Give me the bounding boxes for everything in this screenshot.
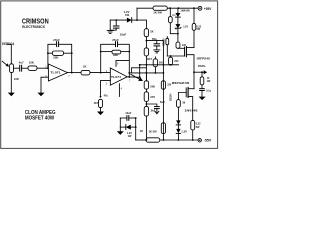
svg-text:5u6: 5u6 bbox=[160, 100, 165, 104]
svg-text:27pF: 27pF bbox=[53, 38, 60, 42]
svg-text:56p: 56p bbox=[152, 37, 157, 41]
svg-text:1K 5W: 1K 5W bbox=[153, 11, 162, 15]
svg-text:MOSFET 40W: MOSFET 40W bbox=[25, 115, 54, 121]
svg-text:220: 220 bbox=[174, 60, 179, 63]
svg-text:4K7: 4K7 bbox=[147, 57, 153, 61]
svg-text:47u: 47u bbox=[104, 95, 109, 98]
svg-text:4u7: 4u7 bbox=[19, 60, 24, 64]
svg-text:+55V: +55V bbox=[204, 7, 212, 11]
svg-text:10uF: 10uF bbox=[125, 111, 131, 115]
svg-text:220: 220 bbox=[182, 44, 187, 47]
svg-text:33K: 33K bbox=[113, 53, 118, 57]
svg-text:BD140: BD140 bbox=[170, 93, 173, 101]
svg-text:1W: 1W bbox=[125, 13, 130, 17]
svg-text:TL071: TL071 bbox=[50, 70, 61, 74]
svg-text:1K: 1K bbox=[150, 29, 154, 33]
svg-text:27pF: 27pF bbox=[112, 38, 119, 42]
svg-text:500: 500 bbox=[150, 84, 155, 88]
svg-text:IRF9240: IRF9240 bbox=[172, 81, 190, 85]
svg-text:IRFP240: IRFP240 bbox=[197, 56, 211, 60]
svg-text:ELECTRONICS: ELECTRONICS bbox=[22, 25, 45, 29]
svg-text:10K: 10K bbox=[14, 77, 19, 81]
svg-text:1K: 1K bbox=[140, 129, 143, 133]
svg-text:1K: 1K bbox=[83, 65, 87, 69]
svg-text:1K5: 1K5 bbox=[159, 61, 165, 65]
svg-text:1N4148: 1N4148 bbox=[184, 109, 198, 112]
svg-text:4K7: 4K7 bbox=[94, 102, 99, 105]
svg-text:1.2V: 1.2V bbox=[181, 129, 187, 133]
svg-text:22K: 22K bbox=[53, 56, 58, 60]
svg-text:1N4148: 1N4148 bbox=[180, 9, 190, 12]
svg-text:TL071: TL071 bbox=[111, 75, 122, 79]
svg-text:BD139: BD139 bbox=[164, 38, 166, 46]
svg-text:270: 270 bbox=[150, 95, 155, 99]
svg-text:1W: 1W bbox=[128, 135, 132, 138]
svg-text:1K 5W: 1K 5W bbox=[149, 130, 157, 134]
svg-text:CRIMSON: CRIMSON bbox=[22, 16, 49, 25]
svg-text:ENTRADA: ENTRADA bbox=[2, 42, 15, 46]
svg-text:1.2V: 1.2V bbox=[183, 25, 188, 28]
svg-text:0,1u: 0,1u bbox=[206, 90, 211, 93]
svg-text:10uF: 10uF bbox=[120, 32, 127, 36]
svg-text:-55V: -55V bbox=[204, 139, 212, 143]
svg-text:10K: 10K bbox=[29, 60, 34, 64]
svg-text:2k2: 2k2 bbox=[151, 109, 156, 113]
svg-text:PARL.: PARL. bbox=[198, 64, 206, 68]
